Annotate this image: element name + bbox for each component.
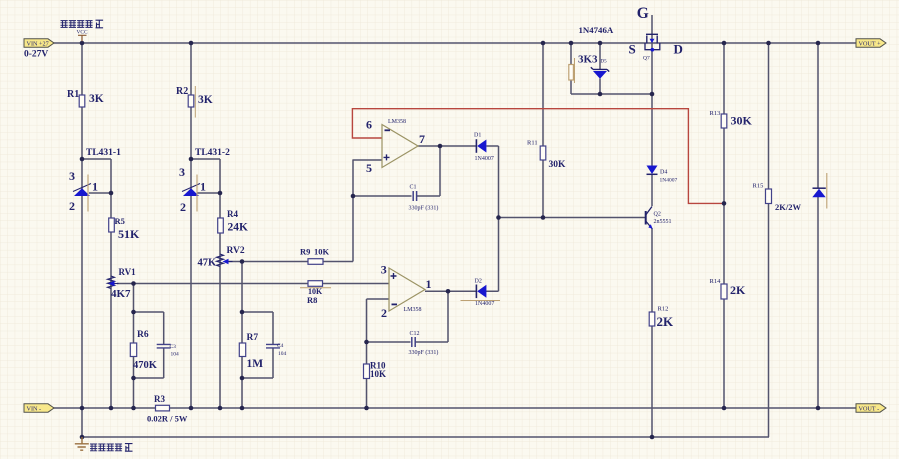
svg-text:47K: 47K <box>198 258 218 269</box>
svg-text:VOUT +: VOUT + <box>859 40 882 47</box>
svg-text:470K: 470K <box>133 360 158 371</box>
svg-text:VIN -: VIN - <box>27 405 42 412</box>
svg-text:10K: 10K <box>370 369 386 379</box>
svg-text:0-27V: 0-27V <box>24 50 48 60</box>
svg-text:C1: C1 <box>410 185 417 191</box>
svg-text:2: 2 <box>180 200 186 214</box>
svg-text:24K: 24K <box>228 222 249 234</box>
svg-text:R11: R11 <box>527 140 538 147</box>
svg-text:104: 104 <box>171 352 180 358</box>
svg-text:RV1: RV1 <box>119 267 137 277</box>
svg-text:0.02R / 5W: 0.02R / 5W <box>147 414 188 424</box>
svg-text:C4: C4 <box>277 343 284 349</box>
svg-text:R1: R1 <box>67 89 79 100</box>
svg-text:D2: D2 <box>475 279 482 285</box>
svg-text:C3: C3 <box>170 344 177 350</box>
svg-text:R7: R7 <box>247 333 259 343</box>
svg-text:1: 1 <box>426 277 432 291</box>
svg-text:30K: 30K <box>731 114 753 128</box>
svg-text:2K/2W: 2K/2W <box>775 202 801 212</box>
svg-text:3: 3 <box>179 165 185 179</box>
svg-text:1N4746A: 1N4746A <box>579 25 614 35</box>
svg-text:Q2: Q2 <box>654 212 661 218</box>
svg-text:3K: 3K <box>89 93 104 105</box>
svg-text:R4: R4 <box>227 209 238 219</box>
svg-text:D: D <box>674 42 683 57</box>
svg-text:1: 1 <box>92 180 98 194</box>
svg-text:7: 7 <box>419 132 425 146</box>
svg-text:R15: R15 <box>753 183 764 190</box>
svg-text:LM358: LM358 <box>404 307 422 313</box>
svg-text:1N4007: 1N4007 <box>660 178 678 184</box>
svg-text:4K7: 4K7 <box>111 288 131 300</box>
svg-text:3K3: 3K3 <box>578 54 598 66</box>
svg-text:5: 5 <box>366 161 372 175</box>
svg-text:R8: R8 <box>307 295 317 305</box>
svg-text:10K: 10K <box>314 247 330 257</box>
svg-text:VOUT -: VOUT - <box>859 405 880 412</box>
svg-text:R3: R3 <box>154 394 165 404</box>
svg-text:2K: 2K <box>730 283 746 297</box>
svg-text:2: 2 <box>381 306 387 320</box>
svg-text:TL431-1: TL431-1 <box>86 148 121 158</box>
svg-text:2n5551: 2n5551 <box>654 219 672 225</box>
svg-text:6: 6 <box>366 118 372 132</box>
svg-text:RV2: RV2 <box>227 246 245 256</box>
svg-text:30K: 30K <box>549 160 567 170</box>
svg-text:C12: C12 <box>410 331 420 337</box>
svg-text:D4: D4 <box>660 170 667 176</box>
svg-text:R5: R5 <box>115 216 125 226</box>
svg-text:Q7: Q7 <box>643 56 650 62</box>
svg-text:2K: 2K <box>657 314 675 329</box>
svg-text:VCC: VCC <box>77 29 88 35</box>
svg-text:51K: 51K <box>118 227 140 241</box>
svg-text:1N4007: 1N4007 <box>475 301 494 307</box>
svg-text:330pF (331): 330pF (331) <box>409 349 439 356</box>
svg-text:S: S <box>629 42 636 57</box>
svg-text:D1: D1 <box>474 133 481 139</box>
svg-text:R6: R6 <box>137 330 149 340</box>
svg-text:R2: R2 <box>176 86 188 97</box>
svg-text:G: G <box>637 5 649 22</box>
svg-text:1: 1 <box>200 180 206 194</box>
svg-text:R12: R12 <box>658 306 669 313</box>
svg-text:1N4007: 1N4007 <box>475 156 494 162</box>
svg-text:LM358: LM358 <box>388 119 406 125</box>
svg-text:TL431-2: TL431-2 <box>195 148 230 158</box>
svg-text:R13: R13 <box>710 110 721 117</box>
svg-text:R14: R14 <box>710 278 722 285</box>
svg-text:330pF (331): 330pF (331) <box>409 205 439 212</box>
svg-text:3K: 3K <box>198 94 213 106</box>
svg-text:2: 2 <box>69 199 75 213</box>
svg-text:104: 104 <box>278 351 287 357</box>
svg-text:D5: D5 <box>601 60 608 65</box>
svg-text:3: 3 <box>381 263 387 277</box>
svg-text:VIN +27: VIN +27 <box>27 40 49 47</box>
svg-text:3: 3 <box>69 169 75 183</box>
svg-text:1M: 1M <box>247 358 264 370</box>
svg-text:R9: R9 <box>300 247 310 257</box>
